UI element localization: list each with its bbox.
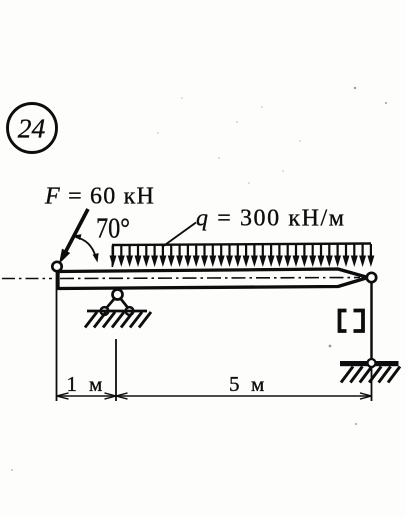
pin support: triangle legs	[106, 299, 129, 309]
dimension arrows middle	[105, 393, 128, 399]
angle arc	[76, 237, 97, 258]
svg-text:24: 24	[18, 113, 46, 144]
beam body outline (tapered right end)	[58, 269, 368, 289]
svg-text:F = 60 кН: F = 60 кН	[44, 184, 155, 210]
force F arrow shaft	[66, 209, 88, 251]
right support bottom hinge circle	[368, 359, 376, 367]
right hinge node circle at beam tip	[367, 273, 376, 282]
right support ground hatching	[341, 367, 400, 383]
distributed load left edge	[111, 246, 113, 268]
svg-text:1м: 1м	[67, 372, 103, 396]
distributed load arrows	[110, 244, 117, 267]
right support ground bar	[340, 361, 399, 366]
svg-text:q = 300 кН/м: q = 300 кН/м	[196, 206, 346, 232]
svg-text:70°: 70°	[96, 214, 130, 245]
dimension line	[57, 395, 372, 397]
force F arrowhead	[59, 249, 70, 264]
beam axis dash-dot line (left extension past hinge)	[2, 278, 52, 280]
svg-text:5м: 5м	[229, 372, 264, 396]
beam centerline dash-dot	[60, 278, 360, 279]
pin support: ground hatching	[85, 312, 151, 328]
angle arc arrowhead upper	[73, 234, 81, 240]
left dimension extension line	[56, 272, 58, 401]
pin support: left base roller circle	[101, 307, 109, 315]
left hinge node circle	[52, 262, 61, 271]
task number circle badge	[8, 104, 57, 153]
middle dimension extension line	[115, 339, 117, 401]
scan speckles	[11, 87, 387, 471]
q leader line	[162, 223, 196, 248]
dimension arrow left	[57, 393, 69, 399]
distributed load top line	[112, 244, 371, 246]
pin support: pin circle	[113, 290, 123, 300]
dimension arrow right	[360, 393, 372, 399]
pin support: right base roller circle	[126, 307, 134, 315]
bracket symbol ]	[354, 311, 364, 332]
pin support: ground line	[87, 310, 147, 313]
angle arc arrowhead lower	[93, 253, 99, 263]
bracket symbol [	[340, 311, 347, 332]
right support link rod	[370, 282, 373, 361]
right dimension extension line	[371, 366, 373, 401]
